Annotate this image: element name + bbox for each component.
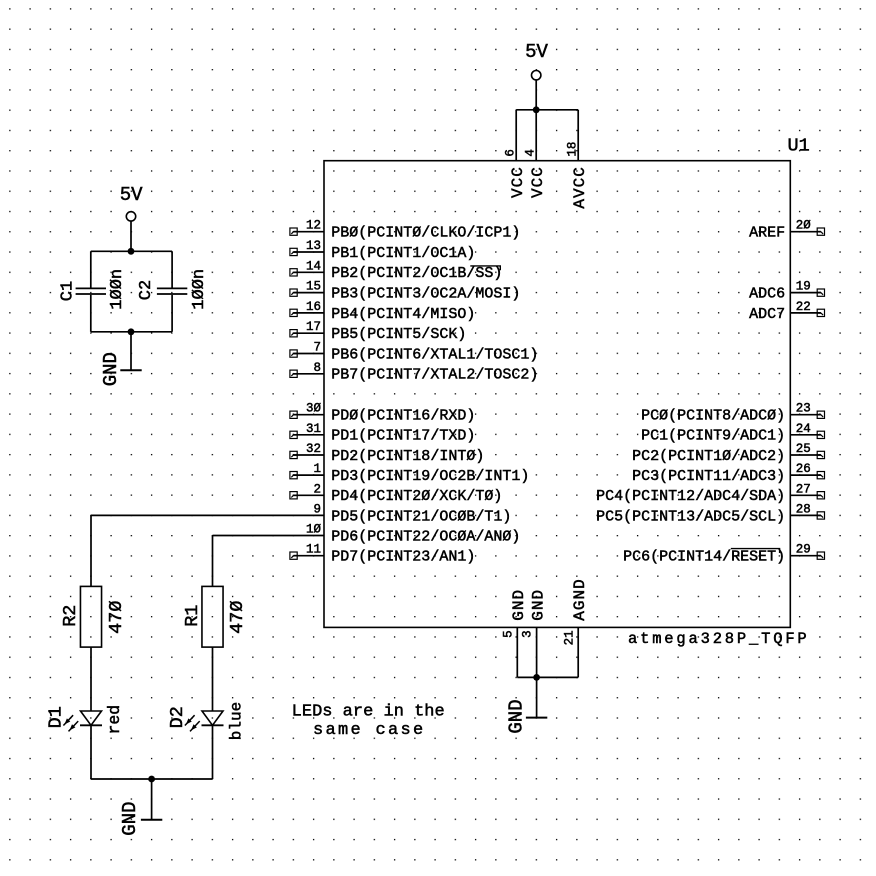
wire R1 to D2 <box>212 647 214 711</box>
svg-text:47Ø: 47Ø <box>227 601 248 634</box>
svg-text:PB1(PCINT1/OC1A): PB1(PCINT1/OC1A) <box>331 245 475 262</box>
resistor R2 (470) <box>60 586 127 647</box>
wire cap top rail <box>91 250 172 252</box>
pin 18 AVCC (top) <box>565 110 589 209</box>
svg-text:PD2(PCINT18/INTØ): PD2(PCINT18/INTØ) <box>331 448 484 465</box>
svg-text:1Ø: 1Ø <box>306 523 322 537</box>
pin 15 PB3 <box>290 280 520 303</box>
junction cap bottom <box>128 328 135 335</box>
svg-text:18: 18 <box>565 142 579 157</box>
svg-text:PD3(PCINT19/OC2B/INT1): PD3(PCINT19/OC2B/INT1) <box>331 468 529 485</box>
LED D2 (blue) <box>167 702 245 740</box>
svg-text:47Ø: 47Ø <box>106 601 127 634</box>
pin 28 PC5 <box>596 502 824 525</box>
svg-text:31: 31 <box>306 422 321 436</box>
pin 5 GND (bottom) <box>501 589 528 678</box>
junction cap top <box>128 248 135 255</box>
svg-text:1: 1 <box>313 462 321 476</box>
svg-text:2Ø: 2Ø <box>796 219 812 233</box>
svg-text:VCC: VCC <box>529 166 547 198</box>
svg-text:2: 2 <box>313 482 321 496</box>
svg-text:PB7(PCINT7/XTAL2/TOSC2): PB7(PCINT7/XTAL2/TOSC2) <box>331 367 538 384</box>
pin 24 PC1 <box>641 422 824 445</box>
svg-text:5V: 5V <box>120 184 143 206</box>
svg-text:D1: D1 <box>46 706 67 728</box>
ground symbol (LEDs) <box>119 779 163 836</box>
svg-text:PC5(PCINT13/ADC5/SCL): PC5(PCINT13/ADC5/SCL) <box>596 508 785 525</box>
svg-text:R2: R2 <box>60 605 81 627</box>
pin 20 AREF <box>749 219 824 242</box>
junction LED rail <box>148 776 155 783</box>
pin 6 VCC (top) <box>503 110 527 198</box>
svg-text:32: 32 <box>306 442 321 456</box>
svg-text:C1: C1 <box>59 281 78 301</box>
svg-text:6: 6 <box>503 149 517 157</box>
svg-text:blue: blue <box>227 702 245 740</box>
svg-text:13: 13 <box>306 239 321 253</box>
svg-text:PC2(PCINT1Ø/ADC2): PC2(PCINT1Ø/ADC2) <box>632 448 785 465</box>
svg-text:17: 17 <box>306 320 321 334</box>
svg-text:PB6(PCINT6/XTAL1/TOSC1): PB6(PCINT6/XTAL1/TOSC1) <box>331 346 538 363</box>
svg-text:28: 28 <box>796 502 811 516</box>
wire cap bottom rail <box>91 331 172 333</box>
svg-text:25: 25 <box>796 442 811 456</box>
junction GND rail <box>533 674 540 681</box>
pin 31 PD1 <box>290 422 475 445</box>
pin 19 ADC6 <box>749 280 824 303</box>
wire VCC top rail <box>516 109 578 111</box>
svg-text:4: 4 <box>523 149 537 157</box>
svg-text:5V: 5V <box>525 41 548 63</box>
svg-text:1ØØn: 1ØØn <box>190 269 209 310</box>
svg-text:26: 26 <box>796 462 811 476</box>
pin 30 PD0 <box>290 402 475 425</box>
svg-text:PC3(PCINT11/ADC3): PC3(PCINT11/ADC3) <box>632 468 785 485</box>
svg-text:PD4(PCINT2Ø/XCK/TØ): PD4(PCINT2Ø/XCK/TØ) <box>331 488 502 505</box>
pin 29 PC6 <box>623 543 824 566</box>
svg-text:1ØØn: 1ØØn <box>108 269 127 310</box>
pin 32 PD2 <box>290 442 484 465</box>
svg-text:PB4(PCINT4/MISO): PB4(PCINT4/MISO) <box>331 306 475 323</box>
pin 3 GND (bottom) <box>521 589 548 678</box>
svg-text:ADC6: ADC6 <box>749 286 785 303</box>
ground symbol (below IC) <box>506 677 548 733</box>
svg-text:GND: GND <box>119 801 141 835</box>
value label atmega328P_TQFP <box>628 630 810 648</box>
pin 17 PB5 <box>290 320 466 343</box>
svg-text:PDØ(PCINT16/RXD): PDØ(PCINT16/RXD) <box>331 408 475 425</box>
junction VCC rail <box>533 106 540 113</box>
pin 25 PC2 <box>632 442 824 465</box>
svg-text:PD7(PCINT23/AN1): PD7(PCINT23/AN1) <box>331 549 475 566</box>
svg-text:PD1(PCINT17/TXD): PD1(PCINT17/TXD) <box>331 428 475 445</box>
svg-text:PC6(PCINT14/RESET): PC6(PCINT14/RESET) <box>623 549 785 566</box>
svg-text:15: 15 <box>306 280 321 294</box>
pin 26 PC3 <box>632 462 824 485</box>
svg-text:PC1(PCINT9/ADC1): PC1(PCINT9/ADC1) <box>641 428 785 445</box>
capacitor C1 <box>59 251 128 331</box>
IC U1 body (atmega328P_TQFP) <box>324 161 790 628</box>
pin 22 ADC7 <box>749 300 824 323</box>
svg-text:11: 11 <box>306 543 321 557</box>
pin 12 PB0 <box>290 219 520 242</box>
pin 10 PD6 <box>306 523 520 546</box>
svg-text:GND: GND <box>100 352 122 386</box>
svg-text:PD5(PCINT21/OCØB/T1): PD5(PCINT21/OCØB/T1) <box>331 508 511 525</box>
svg-text:PB3(PCINT3/OC2A/MOSI): PB3(PCINT3/OC2A/MOSI) <box>331 286 520 303</box>
svg-text:27: 27 <box>796 482 811 496</box>
pin 8 PB7 <box>290 361 538 384</box>
svg-text:PCØ(PCINT8/ADCØ): PCØ(PCINT8/ADCØ) <box>641 408 785 425</box>
pin 16 PB4 <box>290 300 475 323</box>
svg-text:5: 5 <box>501 630 515 638</box>
svg-text:R1: R1 <box>182 605 203 627</box>
svg-text:atmega328P_TQFP: atmega328P_TQFP <box>628 630 810 648</box>
svg-text:PD6(PCINT22/OCØA/ANØ): PD6(PCINT22/OCØA/ANØ) <box>331 528 520 545</box>
svg-text:7: 7 <box>313 341 321 355</box>
power symbol 5V (left) <box>120 184 143 252</box>
note: LEDs are in the same case <box>292 703 445 740</box>
svg-text:9: 9 <box>313 502 321 516</box>
svg-text:PB5(PCINT5/SCK): PB5(PCINT5/SCK) <box>331 326 466 343</box>
wire LED cathodes to ground rail <box>91 725 213 779</box>
svg-text:PC4(PCINT12/ADC4/SDA): PC4(PCINT12/ADC4/SDA) <box>596 488 785 505</box>
ground symbol (caps) <box>100 332 142 387</box>
svg-text:AGND: AGND <box>571 578 589 620</box>
svg-text:GND: GND <box>529 589 547 621</box>
wire PD5 to R2 <box>91 515 324 586</box>
pin 2 PD4 <box>290 482 502 505</box>
svg-text:U1: U1 <box>787 135 809 156</box>
LED D1 (red) <box>46 705 124 735</box>
pin 13 PB1 <box>290 239 475 262</box>
svg-text:AVCC: AVCC <box>571 166 589 208</box>
power symbol 5V (top) <box>525 41 548 110</box>
svg-text:19: 19 <box>796 280 811 294</box>
capacitor C2 <box>137 251 209 331</box>
svg-text:PBØ(PCINTØ/CLKO/ICP1): PBØ(PCINTØ/CLKO/ICP1) <box>331 225 520 242</box>
svg-text:12: 12 <box>306 219 321 233</box>
svg-text:VCC: VCC <box>509 166 527 198</box>
svg-text:red: red <box>105 705 124 735</box>
svg-text:23: 23 <box>796 402 811 416</box>
svg-text:C2: C2 <box>137 280 156 300</box>
svg-text:same case: same case <box>313 721 426 740</box>
svg-text:ADC7: ADC7 <box>749 306 785 323</box>
svg-text:22: 22 <box>796 300 811 314</box>
pin 1 PD3 <box>290 462 529 485</box>
svg-text:GND: GND <box>510 589 528 621</box>
pin 23 PC0 <box>641 402 824 425</box>
pin 11 PD7 <box>290 543 475 566</box>
pin 21 AGND (bottom) <box>562 578 589 677</box>
svg-text:3: 3 <box>521 630 535 638</box>
pin 27 PC4 <box>596 482 824 505</box>
pin 7 PB6 <box>290 341 538 364</box>
pin 14 PB2 <box>290 259 502 282</box>
svg-text:16: 16 <box>306 300 321 314</box>
svg-text:14: 14 <box>306 259 321 273</box>
resistor R1 (470) <box>182 586 248 647</box>
svg-text:8: 8 <box>313 361 321 375</box>
svg-text:PB2(PCINT2/OC1B/SS): PB2(PCINT2/OC1B/SS) <box>331 265 502 282</box>
reference designator U1 <box>787 135 809 156</box>
svg-text:3Ø: 3Ø <box>306 402 322 416</box>
svg-text:GND: GND <box>506 699 528 733</box>
svg-text:D2: D2 <box>167 706 188 728</box>
wire R2 to D1 <box>90 647 92 711</box>
svg-text:24: 24 <box>796 422 811 436</box>
wire PD6 to R1 <box>213 536 325 587</box>
svg-text:LEDs are in the: LEDs are in the <box>292 703 445 722</box>
svg-text:AREF: AREF <box>749 225 785 242</box>
svg-text:21: 21 <box>562 630 576 645</box>
wire GND bottom rail <box>517 676 578 678</box>
pin 9 PD5 <box>313 502 511 525</box>
svg-text:29: 29 <box>796 543 811 557</box>
pin 4 VCC (top) <box>523 110 547 198</box>
